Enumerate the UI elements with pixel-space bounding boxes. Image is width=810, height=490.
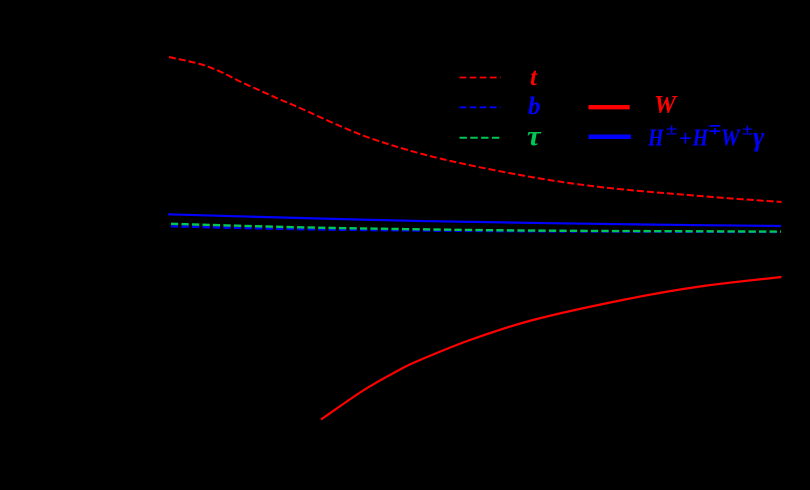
- svg-text:t: t: [530, 64, 538, 91]
- svg-text:±: ±: [742, 122, 753, 139]
- legend sample b (blue dashed): [460, 106, 501, 108]
- svg-text:±: ±: [666, 122, 678, 139]
- svg-text:W: W: [654, 92, 678, 119]
- svg-text:H: H: [692, 126, 709, 152]
- curve H+HW (blue solid): [168, 214, 781, 226]
- curve tau (green dashed): [171, 224, 781, 232]
- legend sample t (red dashed): [460, 77, 501, 79]
- svg-text:b: b: [528, 93, 541, 120]
- svg-text:γ: γ: [753, 122, 765, 152]
- legend sample HHWgamma (blue solid): [589, 135, 632, 140]
- svg-text:H: H: [647, 126, 664, 152]
- curve W (red solid): [321, 277, 782, 420]
- svg-text:W: W: [721, 126, 741, 152]
- svg-text:τ: τ: [527, 120, 542, 152]
- legend sample tau (green dashed): [460, 137, 501, 139]
- curve b (blue dashed): [171, 226, 781, 232]
- legend sample W (red solid): [589, 105, 630, 109]
- svg-text:+: +: [679, 126, 692, 151]
- curve t (red dashed): [169, 57, 782, 202]
